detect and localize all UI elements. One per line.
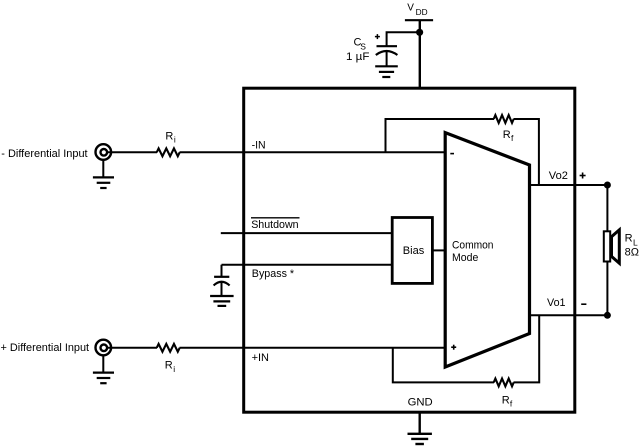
Bias box [392, 218, 432, 284]
svg-text:-IN: -IN [252, 139, 266, 151]
junction dot Vo1 [604, 312, 611, 319]
svg-text:1 µF: 1 µF [346, 51, 370, 63]
svg-text:R: R [502, 395, 510, 407]
label CS 1uF [346, 37, 370, 64]
ground (J2) [93, 355, 114, 383]
plus polarity mark of CS [375, 34, 380, 39]
resistor Ri (negative input) [157, 148, 180, 156]
op-amp differential amplifier (trapezoid) [445, 133, 529, 367]
junction dot Vo2 [604, 182, 611, 189]
wire VDD rail to box top [419, 20, 421, 88]
svg-text:i: i [173, 364, 175, 374]
resistor Rf (top feedback) [494, 115, 514, 123]
plus output polarity [580, 173, 586, 179]
wire Bias to amplifier [432, 249, 445, 251]
wire Bypass input [222, 264, 393, 266]
wire Shutdown input [221, 232, 392, 234]
svg-text:- Differential Input: - Differential Input [1, 148, 87, 160]
svg-text:Vo1: Vo1 [547, 297, 566, 309]
svg-text:DD: DD [416, 7, 428, 17]
wire junction to capacitor CS [387, 32, 420, 46]
IC boundary box U1 [244, 88, 575, 412]
label Common Mode [452, 239, 494, 264]
wire feedback tap up from -IN [386, 119, 495, 152]
wire Ri to amplifier inverting input, node -IN [180, 151, 446, 153]
svg-text:8Ω: 8Ω [625, 247, 639, 259]
wire J1 to resistor Ri [107, 151, 157, 153]
wire speaker load vertical [606, 185, 608, 315]
svg-text:i: i [174, 135, 176, 145]
wire Bypass to capacitor [221, 265, 223, 277]
svg-text:+ Differential Input: + Differential Input [1, 342, 90, 354]
wire J2 to resistor Ri [107, 347, 157, 349]
ground (bypass capacitor) [210, 296, 234, 306]
junction dot VDD/CS [416, 29, 423, 36]
node VDD label [407, 2, 427, 17]
label Shutdown with overline [251, 218, 300, 231]
svg-text:R: R [503, 129, 511, 141]
speaker R_L [604, 230, 620, 263]
resistor Ri (positive input) [157, 344, 180, 352]
label Ri (negative input) [165, 131, 176, 145]
capacitor (bypass) [214, 277, 230, 296]
svg-text:S: S [360, 42, 366, 52]
svg-text:Vo2: Vo2 [549, 170, 568, 182]
svg-text:R: R [165, 360, 173, 372]
svg-text:Bypass *: Bypass * [252, 268, 295, 280]
ground (CS) [375, 66, 398, 77]
minus output polarity [581, 303, 586, 305]
svg-text:+IN: +IN [252, 352, 269, 364]
svg-text:R: R [165, 131, 173, 143]
wire Vo2 output [530, 184, 608, 186]
svg-text:Common: Common [452, 239, 494, 251]
svg-text:Shutdown: Shutdown [251, 219, 298, 231]
capacitor C_S [376, 46, 398, 66]
label Ri (positive input) [165, 360, 176, 374]
wire Ri to amplifier non-inverting input, node +IN [180, 347, 446, 349]
VDD supply rail bar [405, 19, 433, 21]
svg-text:R: R [625, 233, 633, 245]
label Rf (top) [503, 129, 514, 143]
svg-text:Mode: Mode [452, 252, 478, 264]
wire GND to ground [419, 412, 421, 434]
RCA jack J2 (positive input) [96, 340, 112, 356]
minus input mark [450, 153, 454, 155]
wire feedback tap down from +IN [393, 348, 494, 383]
label RL 8ohm [625, 233, 639, 259]
ground (GND) [408, 434, 432, 444]
resistor Rf (bottom feedback) [494, 379, 514, 387]
svg-text:V: V [407, 2, 414, 13]
label Rf (bottom) [502, 395, 513, 409]
wire Rf bottom to Vo1 line [514, 315, 540, 382]
svg-text:GND: GND [408, 396, 433, 408]
ground (J1) [93, 160, 114, 188]
wire Rf top to Vo2 line [514, 119, 539, 185]
RCA jack J1 (negative input) [96, 144, 112, 160]
plus input mark [451, 345, 456, 350]
svg-text:Bias: Bias [403, 245, 425, 257]
wire Vo1 output [530, 314, 608, 316]
